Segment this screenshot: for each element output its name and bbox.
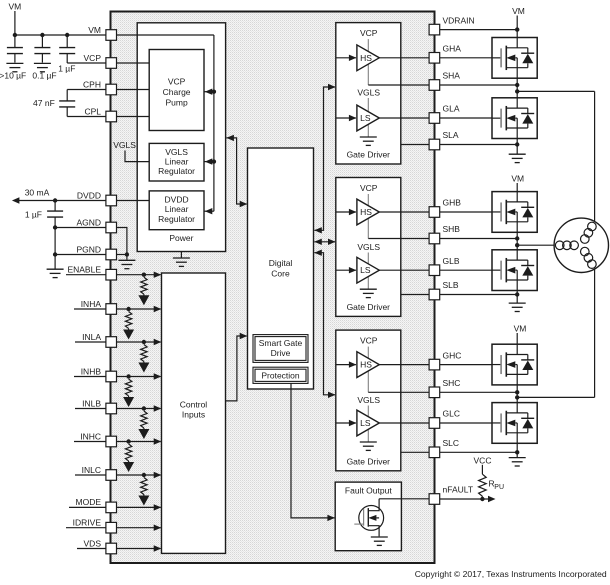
wire VCP bbox=[67, 62, 106, 64]
wire SLB bbox=[401, 294, 429, 296]
wire GLC external bbox=[440, 422, 492, 424]
ground (INLC pulldown arrow) bbox=[143, 495, 145, 497]
wire INHA to Control Inputs bbox=[117, 308, 161, 310]
wire Digital Core to Gate Driver A bbox=[314, 87, 335, 230]
svg-text:Gate Driver: Gate Driver bbox=[347, 456, 391, 466]
inductor coil phase C bbox=[581, 247, 590, 256]
svg-text:VCP: VCP bbox=[168, 77, 186, 87]
pin DVDD bbox=[106, 195, 117, 206]
svg-text:VGLS: VGLS bbox=[357, 395, 380, 405]
svg-text:Fault Output: Fault Output bbox=[345, 486, 392, 496]
resistor INLB pulldown bbox=[141, 411, 147, 428]
block VCP Charge Pump U-CP bbox=[149, 50, 204, 131]
node VDRAIN tie bbox=[515, 27, 519, 31]
wire HS input B bbox=[336, 211, 356, 213]
wire HS input A bbox=[336, 57, 356, 59]
node phase B motor tap bbox=[515, 243, 519, 247]
wire CPL pin to charge pump bbox=[117, 116, 150, 118]
ground (AGND/PGND internal) bbox=[126, 255, 128, 260]
node PGND ext junction bbox=[53, 252, 57, 256]
resistor RPU pull-up bbox=[481, 465, 483, 474]
ground (LS amp C) bbox=[360, 441, 377, 443]
svg-text:Protection: Protection bbox=[261, 371, 300, 381]
wire INHC to Control Inputs bbox=[117, 441, 161, 443]
resistor INHA pulldown bbox=[125, 312, 131, 329]
ground (phase C) bbox=[509, 457, 526, 459]
wire GHA external bbox=[440, 57, 492, 59]
block Gate Driver C bbox=[336, 330, 401, 471]
node SLA tie bbox=[515, 142, 519, 146]
svg-text:VDS: VDS bbox=[84, 538, 102, 548]
svg-text:HS: HS bbox=[360, 360, 372, 370]
transistor Q1 high-side A with body diode bbox=[492, 38, 537, 79]
pin MODE bbox=[106, 502, 117, 513]
wire GHB external bbox=[440, 211, 492, 213]
svg-text:VM: VM bbox=[511, 173, 524, 183]
svg-text:VM: VM bbox=[9, 2, 22, 12]
svg-text:VM: VM bbox=[512, 6, 525, 16]
node INHA pulldown junction bbox=[126, 307, 130, 311]
ground (INHA pulldown arrow) bbox=[128, 329, 130, 331]
wire GHC external bbox=[440, 364, 492, 366]
op-amp LS gate driver A bbox=[357, 105, 379, 131]
op-amp HS gate driver A bbox=[357, 45, 379, 71]
pin INHA bbox=[106, 304, 117, 315]
pin AGND bbox=[106, 222, 117, 233]
svg-text:Gate Driver: Gate Driver bbox=[347, 302, 391, 312]
ground (Power block) bbox=[180, 252, 182, 258]
node SHA tie bbox=[515, 83, 519, 87]
pin GLA bbox=[429, 113, 440, 124]
wire SHC from below HS amp bbox=[368, 391, 429, 393]
svg-text:GLB: GLB bbox=[443, 256, 460, 266]
wire AGND external bbox=[55, 227, 106, 229]
wire LS input B bbox=[336, 269, 356, 271]
wire VM pin to power bus bbox=[117, 34, 214, 36]
svg-text:GLA: GLA bbox=[443, 104, 460, 114]
resistor ENABLE pulldown bbox=[141, 277, 147, 294]
node INLC pulldown junction bbox=[142, 473, 146, 477]
pin SHA bbox=[429, 80, 440, 91]
pin CPH bbox=[106, 84, 117, 95]
svg-text:MODE: MODE bbox=[76, 497, 102, 507]
IC chip body (device) bbox=[111, 12, 435, 564]
wire CPL bbox=[66, 107, 68, 117]
svg-text:SHB: SHB bbox=[443, 224, 461, 234]
ground (ENABLE pulldown arrow) bbox=[143, 294, 145, 296]
node bus j2 bbox=[212, 159, 216, 163]
resistor INHB pulldown bbox=[125, 379, 131, 396]
svg-text:VGLS: VGLS bbox=[357, 88, 380, 98]
ground (LS amp B) bbox=[360, 288, 377, 290]
op-amp LS gate driver B bbox=[357, 257, 379, 283]
node INLA pulldown junction bbox=[142, 340, 146, 344]
ground (LS amp A) bbox=[360, 136, 377, 138]
node phase C motor tap bbox=[515, 395, 519, 399]
node AGND ext junction bbox=[53, 225, 57, 229]
wire VCP pin to charge pump bbox=[117, 62, 150, 64]
wire DVDD pin to regulator bbox=[117, 200, 150, 202]
wire GHB output bbox=[379, 211, 429, 213]
op-amp HS gate driver B bbox=[357, 199, 379, 225]
svg-text:INHA: INHA bbox=[81, 299, 102, 309]
node SLC tie bbox=[515, 450, 519, 454]
wire phase A to motor bbox=[517, 90, 594, 92]
svg-text:PGND: PGND bbox=[76, 244, 101, 254]
svg-text:LS: LS bbox=[360, 265, 371, 275]
svg-text:Inputs: Inputs bbox=[182, 410, 205, 420]
pin GHA bbox=[429, 53, 440, 64]
svg-text:Regulator: Regulator bbox=[158, 214, 195, 224]
wire LS input A bbox=[336, 117, 356, 119]
pin INLC bbox=[106, 470, 117, 481]
wire INLC input stub bbox=[75, 474, 106, 476]
svg-text:Linear: Linear bbox=[165, 204, 189, 214]
wire Digital Core to Gate Driver B bbox=[314, 241, 335, 243]
wire VDS input stub bbox=[77, 548, 106, 550]
svg-text:Copyright © 2017, Texas Instru: Copyright © 2017, Texas Instruments Inco… bbox=[415, 569, 607, 579]
wire VM phase B bbox=[516, 183, 518, 192]
wire LS input C bbox=[336, 422, 356, 424]
svg-text:Charge: Charge bbox=[163, 87, 191, 97]
wire VGLS rail into LS amp C bbox=[367, 406, 369, 442]
svg-text:SLB: SLB bbox=[443, 280, 459, 290]
wire IDRIVE input stub bbox=[66, 527, 106, 529]
wire GLA external bbox=[440, 117, 492, 119]
svg-text:Pump: Pump bbox=[165, 98, 187, 108]
svg-text:SHC: SHC bbox=[443, 378, 461, 388]
wire SLB external bbox=[516, 291, 518, 303]
block Gate Driver B bbox=[336, 178, 401, 317]
svg-text:DVDD: DVDD bbox=[165, 195, 189, 205]
pin INLA bbox=[106, 337, 117, 348]
wire INLA input stub bbox=[75, 341, 106, 343]
svg-text:Core: Core bbox=[271, 269, 290, 279]
transistor Q7 open-drain fault bbox=[359, 506, 384, 531]
wire bus arrow into DVDD reg bbox=[204, 210, 214, 212]
pin SLA bbox=[429, 139, 440, 150]
ground (INLB pulldown arrow) bbox=[143, 428, 145, 430]
svg-text:DVDD: DVDD bbox=[77, 190, 101, 200]
op-amp LS gate driver C bbox=[357, 410, 379, 436]
svg-text:INLB: INLB bbox=[82, 398, 101, 408]
wire Control Inputs to Digital Core bbox=[226, 336, 247, 401]
svg-text:>10 µF: >10 µF bbox=[0, 71, 26, 81]
node VM rail j2 bbox=[40, 33, 44, 37]
pin GHB bbox=[429, 207, 440, 218]
inductor coil phase B bbox=[570, 241, 579, 250]
pin VM bbox=[106, 30, 117, 41]
pin SHC bbox=[429, 387, 440, 398]
capacitor C5 1 uF (DVDD) bbox=[54, 201, 56, 212]
svg-text:VCP: VCP bbox=[84, 53, 102, 63]
node VM rail j1 bbox=[13, 33, 17, 37]
node nFAULT pullup tie bbox=[480, 497, 484, 501]
wire VDS to Control Inputs bbox=[117, 548, 161, 550]
node phase A motor tap bbox=[515, 89, 519, 93]
wire VM rail to VM pin bbox=[15, 34, 106, 36]
capacitor C1 >10 uF bbox=[14, 35, 16, 47]
svg-text:Digital: Digital bbox=[269, 258, 293, 268]
wire bus arrow into VGLS reg bbox=[204, 161, 214, 163]
svg-text:LS: LS bbox=[360, 113, 371, 123]
wire GHA output bbox=[379, 57, 429, 59]
svg-text:INLC: INLC bbox=[82, 465, 101, 475]
node bus j1 bbox=[212, 90, 216, 94]
wire phase B to motor bbox=[517, 244, 554, 246]
svg-text:Power: Power bbox=[169, 233, 193, 243]
block DVDD Linear Regulator bbox=[149, 191, 204, 230]
wire nFAULT external bbox=[440, 498, 488, 500]
wire SHC external bbox=[440, 391, 518, 393]
svg-text:30 mA: 30 mA bbox=[25, 187, 50, 197]
ground (phase B) bbox=[509, 302, 526, 304]
wire VGLS label to regulator bbox=[125, 151, 149, 162]
svg-text:VCP: VCP bbox=[360, 183, 378, 193]
pin INHB bbox=[106, 371, 117, 382]
block Digital Core bbox=[248, 148, 314, 389]
wire VGLS rail into LS amp A bbox=[367, 98, 369, 137]
svg-text:Linear: Linear bbox=[165, 157, 189, 167]
motor (BLDC) bbox=[554, 218, 608, 272]
svg-text:VDRAIN: VDRAIN bbox=[443, 15, 475, 25]
svg-text:VCP: VCP bbox=[360, 336, 378, 346]
svg-text:0.1 µF: 0.1 µF bbox=[32, 71, 56, 81]
transistor Q5 high-side C with body diode bbox=[492, 344, 537, 385]
block VGLS Linear Regulator bbox=[149, 143, 204, 181]
svg-text:1 µF: 1 µF bbox=[58, 64, 75, 74]
svg-text:HS: HS bbox=[360, 207, 372, 217]
svg-text:SHA: SHA bbox=[443, 71, 461, 81]
wire VM phase A bbox=[516, 16, 518, 38]
svg-text:VM: VM bbox=[514, 323, 527, 333]
capacitor C4 47 nF bbox=[59, 100, 75, 102]
ground (phase A) bbox=[509, 153, 526, 155]
wire Protection to Fault Output bbox=[291, 383, 334, 518]
svg-text:SLA: SLA bbox=[443, 130, 459, 140]
node SLB tie bbox=[515, 292, 519, 296]
wire HS input C bbox=[336, 364, 356, 366]
pin VDRAIN bbox=[429, 24, 440, 35]
pin PGND bbox=[106, 249, 117, 260]
wire ENABLE to Control Inputs bbox=[117, 274, 161, 276]
wire ENABLE input stub bbox=[66, 274, 106, 276]
node VM rail j3 bbox=[65, 33, 69, 37]
svg-text:GHC: GHC bbox=[443, 350, 462, 360]
wire PGND internal bbox=[117, 254, 127, 256]
wire IDRIVE to Control Inputs bbox=[117, 527, 161, 529]
node AGND/PGND tie bbox=[125, 252, 129, 256]
node SHB tie bbox=[515, 236, 519, 240]
wire INLA to Control Inputs bbox=[117, 341, 161, 343]
pin INHC bbox=[106, 436, 117, 447]
svg-text:VCC: VCC bbox=[474, 455, 492, 465]
wire VCP rail into HS amp B bbox=[367, 194, 369, 239]
svg-text:PU: PU bbox=[494, 484, 504, 491]
transistor Q3 high-side B with body diode bbox=[492, 192, 537, 233]
wire MODE input stub bbox=[69, 506, 106, 508]
wire SLC bbox=[401, 451, 429, 453]
wire SHA external bbox=[440, 84, 518, 86]
svg-text:VCP: VCP bbox=[360, 28, 378, 38]
wire INHC input stub bbox=[74, 441, 106, 443]
svg-text:VGLS: VGLS bbox=[357, 242, 380, 252]
wire GLA output bbox=[379, 117, 429, 119]
svg-text:INLA: INLA bbox=[82, 332, 101, 342]
wire VM supply drop bbox=[14, 11, 16, 35]
wire nFAULT inside bbox=[379, 498, 429, 500]
ground (INLA pulldown arrow) bbox=[143, 362, 145, 364]
svg-text:HS: HS bbox=[360, 53, 372, 63]
svg-text:GHB: GHB bbox=[443, 198, 462, 208]
wire phase A midpoint bbox=[516, 78, 518, 98]
transistor Q2 low-side A with body diode bbox=[492, 98, 537, 139]
wire phase C midpoint bbox=[516, 385, 518, 403]
transistor Q4 low-side B with body diode bbox=[492, 250, 537, 291]
capacitor C2 0.1 uF bbox=[41, 35, 43, 47]
pin ENABLE bbox=[106, 269, 117, 280]
svg-text:47 nF: 47 nF bbox=[33, 98, 55, 108]
resistor INLC pulldown bbox=[141, 478, 147, 495]
wire SLA external bbox=[516, 139, 518, 154]
wire DVDD 30 mA output bbox=[19, 200, 106, 202]
svg-text:Regulator: Regulator bbox=[158, 166, 195, 176]
wire INHB input stub bbox=[74, 376, 106, 378]
wire INLB to Control Inputs bbox=[117, 408, 161, 410]
motor winding connections bbox=[594, 91, 596, 221]
wire GLB external bbox=[440, 269, 492, 271]
node DVDD cap junction bbox=[53, 198, 57, 202]
node ENABLE pulldown junction bbox=[142, 273, 146, 277]
wire VCP rail into HS amp A bbox=[367, 39, 369, 85]
svg-text:IDRIVE: IDRIVE bbox=[73, 518, 102, 528]
node INHB pulldown junction bbox=[126, 374, 130, 378]
ground (fault output) bbox=[371, 536, 388, 538]
pin GLC bbox=[429, 418, 440, 429]
resistor INHC pulldown bbox=[125, 444, 131, 461]
svg-text:CPL: CPL bbox=[84, 106, 101, 116]
op-amp HS gate driver C bbox=[357, 352, 379, 378]
wire phase C to motor bbox=[517, 396, 594, 398]
wire SLC external bbox=[516, 443, 518, 457]
svg-text:LS: LS bbox=[360, 418, 371, 428]
pin SLC bbox=[429, 447, 440, 458]
svg-text:INHB: INHB bbox=[81, 366, 102, 376]
wire VM phase C bbox=[516, 333, 518, 344]
svg-text:INHC: INHC bbox=[80, 431, 101, 441]
svg-text:SLC: SLC bbox=[443, 438, 460, 448]
svg-text:GLC: GLC bbox=[443, 409, 460, 419]
svg-text:VM: VM bbox=[88, 25, 101, 35]
wire GHC output bbox=[379, 364, 429, 366]
ground (INHC pulldown arrow) bbox=[128, 461, 130, 463]
node INLB pulldown junction bbox=[142, 406, 146, 410]
capacitor C3 1 uF (VCP) bbox=[66, 35, 68, 47]
wire Power to Digital Core bbox=[226, 138, 246, 204]
block Power bbox=[137, 23, 225, 252]
node SHC tie bbox=[515, 390, 519, 394]
pin SLB bbox=[429, 289, 440, 300]
wire GLC output bbox=[379, 422, 429, 424]
wire CPH pin to charge pump bbox=[117, 89, 150, 91]
wire CPH bbox=[67, 89, 106, 91]
svg-text:CPH: CPH bbox=[83, 79, 101, 89]
wire bus arrow into VCP pump bbox=[204, 91, 214, 93]
pin VCP bbox=[106, 58, 117, 69]
wire INHB to Control Inputs bbox=[117, 376, 161, 378]
block Protection bbox=[253, 367, 308, 383]
svg-text:nFAULT: nFAULT bbox=[443, 485, 474, 495]
wire MODE to Control Inputs bbox=[117, 506, 161, 508]
wire INHA input stub bbox=[74, 308, 106, 310]
svg-text:Smart Gate: Smart Gate bbox=[259, 338, 303, 348]
inductor coil phase A bbox=[581, 235, 590, 244]
wire AGND internal bbox=[117, 228, 127, 255]
wire VDRAIN bbox=[440, 29, 518, 31]
block Fault Output bbox=[335, 482, 401, 551]
svg-text:AGND: AGND bbox=[76, 217, 101, 227]
pin INLB bbox=[106, 403, 117, 414]
svg-text:ENABLE: ENABLE bbox=[67, 265, 101, 275]
pin CPL bbox=[106, 111, 117, 122]
svg-text:Drive: Drive bbox=[271, 348, 291, 358]
pin GHC bbox=[429, 359, 440, 370]
wire GLB output bbox=[379, 269, 429, 271]
ground (external DVDD/AGND/PGND) bbox=[47, 268, 64, 270]
wire SHA from below HS amp bbox=[368, 84, 429, 86]
wire SHB from below HS amp bbox=[368, 238, 429, 240]
block Gate Driver A bbox=[336, 23, 401, 164]
svg-text:VGLS: VGLS bbox=[113, 140, 136, 150]
svg-text:VGLS: VGLS bbox=[165, 147, 188, 157]
transistor Q6 low-side C with body diode bbox=[492, 403, 537, 444]
svg-text:Control: Control bbox=[180, 400, 208, 410]
pin VDS bbox=[106, 543, 117, 554]
wire SLA bbox=[401, 144, 429, 146]
block Smart Gate Drive bbox=[253, 335, 308, 363]
wire INLB input stub bbox=[75, 408, 106, 410]
wire VGLS rail into LS amp B bbox=[367, 253, 369, 289]
block Control Inputs bbox=[162, 273, 226, 553]
resistor INLA pulldown bbox=[141, 345, 147, 362]
svg-text:Gate Driver: Gate Driver bbox=[347, 150, 391, 160]
node INHC pulldown junction bbox=[126, 439, 130, 443]
wire VCP rail into HS amp C bbox=[367, 347, 369, 393]
pin IDRIVE bbox=[106, 522, 117, 533]
wire phase B midpoint bbox=[516, 232, 518, 250]
wire PGND external bbox=[55, 254, 106, 256]
svg-text:1 µF: 1 µF bbox=[25, 209, 42, 219]
ground (INHB pulldown arrow) bbox=[128, 396, 130, 398]
wire INLC to Control Inputs bbox=[117, 474, 161, 476]
wire Digital Core to Gate Driver C bbox=[314, 253, 335, 395]
pin SHB bbox=[429, 233, 440, 244]
svg-text:GHA: GHA bbox=[443, 44, 462, 54]
wire SHB external bbox=[440, 238, 518, 240]
pin nFAULT bbox=[429, 494, 440, 505]
pin GLB bbox=[429, 265, 440, 276]
wire power bus vertical bbox=[213, 35, 215, 211]
